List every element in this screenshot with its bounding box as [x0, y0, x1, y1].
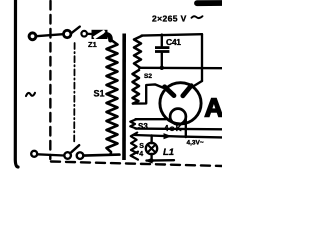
tube anode right: [183, 86, 191, 96]
tube filament circle: [170, 109, 186, 125]
tube anode left: [165, 87, 174, 96]
capacitor C41 lead top: [161, 35, 163, 47]
arrow right on S4 wire: [164, 133, 173, 139]
switch contact top: [81, 31, 87, 37]
S4 top wire: [135, 135, 223, 137]
switch contact bottom right: [77, 152, 84, 159]
fuse Z1: [92, 30, 108, 39]
wire S2 lower to left anode: [133, 84, 163, 103]
AC symbol: [26, 93, 35, 96]
svg-text:4: 4: [139, 151, 143, 158]
wire to primary bottom: [83, 155, 119, 156]
S3 winding chevron: [130, 119, 136, 128]
lamp lead top: [150, 135, 152, 143]
S4 bottom chevron: [131, 152, 138, 160]
wire HV right vertical: [201, 34, 203, 81]
switch S blade top: [72, 27, 80, 33]
svg-text:S3: S3: [138, 122, 148, 131]
svg-text:C41: C41: [166, 37, 181, 47]
wire HV top: [142, 34, 203, 35]
transformer primary S1: [107, 39, 118, 155]
S3 bottom wire: [136, 127, 223, 130]
switch contact bottom left: [64, 152, 71, 159]
junction dot cap: [160, 66, 164, 70]
S4 bottom wire with left arrow: [147, 159, 175, 162]
wire phase: [36, 34, 63, 36]
svg-text:S1: S1: [94, 89, 105, 99]
chassis boundary dashed vertical: [49, 1, 52, 159]
S3 top wire: [136, 118, 167, 120]
capacitor C41 lead bottom: [161, 53, 163, 68]
svg-text:4oK: 4oK: [164, 124, 183, 133]
svg-text:L1: L1: [163, 147, 174, 158]
wire right anode diagonal: [193, 81, 202, 87]
lamp lead bottom: [150, 154, 152, 161]
mains supply line: [15, 0, 18, 167]
wire fuse to primary: [106, 34, 111, 40]
wire neutral: [37, 154, 64, 155]
secondary S2 upper: [134, 36, 142, 68]
switch S blade bottom: [71, 145, 79, 152]
secondary S2 lower: [133, 70, 140, 104]
svg-text:2×265 V: 2×265 V: [152, 14, 187, 24]
transformer core: [122, 34, 126, 161]
S4 winding: [131, 133, 138, 154]
switch linkage dash-dot: [73, 43, 75, 143]
junction dot lamp: [150, 159, 154, 163]
svg-text:A: A: [205, 93, 223, 123]
wire filament down: [185, 117, 187, 137]
capacitor C41 plates: [155, 46, 169, 49]
svg-text:Z1: Z1: [88, 40, 97, 49]
svg-text:S: S: [139, 143, 144, 150]
wire center tap: [139, 67, 222, 70]
terminal bottom-left: [31, 151, 37, 157]
chassis boundary dashed bottom: [51, 162, 222, 167]
svg-text:S2: S2: [144, 73, 152, 80]
wire to fuse: [87, 33, 91, 36]
terminal top switch: [63, 30, 70, 37]
rectifier tube envelope: [160, 83, 201, 124]
terminal top-left: [29, 33, 36, 40]
corner bar top right: [197, 0, 224, 6]
svg-text:4,3V~: 4,3V~: [187, 140, 204, 147]
lamp L1: [146, 143, 157, 154]
